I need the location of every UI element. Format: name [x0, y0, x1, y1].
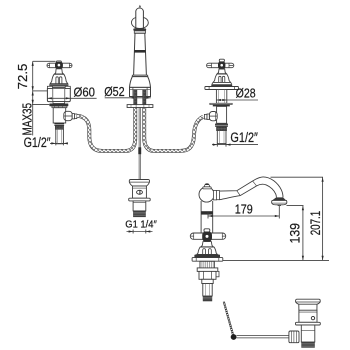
- right valve skirt (dark): [211, 84, 232, 86]
- right valve deck flange (dark): [213, 105, 230, 107]
- side view tail collar: [202, 279, 213, 283]
- deck reference line: [223, 259, 329, 261]
- right valve handle neck: [217, 69, 226, 74]
- left valve shaded bushing: [55, 126, 63, 129]
- spout front: base collar lines: [132, 75, 147, 76]
- svg-text:G1/2″: G1/2″: [230, 130, 258, 145]
- left valve body cup (diameter 60): [47, 87, 70, 101]
- drain side view: tail: [301, 325, 315, 342]
- pop-up rod connector (dark): [138, 147, 141, 154]
- drain side view: neck: [299, 304, 317, 310]
- left valve threaded tail G1/2: [56, 129, 64, 144]
- left valve lock nut (dark bands): [54, 123, 64, 124]
- drain front view: lower body: [133, 201, 146, 211]
- drain front view: threaded tail (dark): [133, 211, 146, 217]
- dimension 179: [208, 206, 279, 219]
- drain front view: upper body: [133, 186, 147, 198]
- side view handle neck: [201, 242, 213, 247]
- svg-text:Ø28: Ø28: [236, 85, 256, 100]
- svg-text:207.1: 207.1: [308, 211, 323, 236]
- side view spout ball: [199, 187, 214, 202]
- left valve waist: [53, 102, 65, 104]
- spout front: bell base: [130, 77, 151, 88]
- right valve base flange: [205, 87, 239, 90]
- dimension column left: vertical dimension line: [32, 61, 56, 135]
- left valve flange feet: [52, 106, 67, 108]
- side view washer tab: [215, 271, 219, 276]
- side view arm collar ribs: [213, 190, 216, 200]
- svg-text:G1/2″: G1/2″: [24, 135, 51, 150]
- right valve stem diameter 28: [216, 90, 226, 104]
- pop-up rod (front view): [139, 108, 140, 180]
- right valve clamp body: [217, 106, 227, 123]
- pop-up pull rod (knurled, side view): [224, 302, 234, 337]
- pop-up horizontal rod: [237, 336, 290, 338]
- svg-text:Ø52: Ø52: [104, 84, 124, 99]
- spout front: curl ellipse: [132, 17, 149, 28]
- side view base flange: [192, 258, 223, 262]
- drain side view: threads (dark): [301, 342, 315, 348]
- spout front: dark ring band: [134, 50, 145, 53]
- left valve cross handle top stub: [56, 61, 61, 64]
- drain side view: body: [299, 310, 317, 322]
- side view outlet collar (dark): [272, 197, 286, 200]
- side view arm joint line 2: [253, 181, 257, 186]
- drain front view: flange: [129, 198, 151, 201]
- braided supply hose left: [77, 108, 136, 151]
- side view handle top stub: [204, 229, 210, 232]
- left valve bell and skirt: [50, 74, 67, 83]
- left valve handle hub: [55, 62, 63, 69]
- dimension 139: [287, 206, 304, 261]
- spout front: mounting plate: [127, 105, 153, 108]
- side view arm joint line: [237, 191, 240, 196]
- side view mounting nut: [199, 271, 216, 279]
- svg-text:MAX35: MAX35: [19, 103, 34, 136]
- dimension line G1 1/4: [127, 230, 153, 234]
- side view horseshoe washer: [197, 268, 218, 272]
- right valve deck plate: [210, 103, 232, 104]
- svg-text:139: 139: [287, 223, 302, 244]
- right valve threaded tail G1/2: [217, 131, 226, 144]
- side view skirt (dark): [194, 255, 220, 258]
- right valve hose connector ribs: [207, 114, 209, 120]
- side view threaded shank below deck: [200, 261, 215, 268]
- left valve side outlet ball: [64, 111, 72, 120]
- svg-text:72.5: 72.5: [15, 64, 30, 90]
- left valve cross handle bar: [47, 63, 72, 67]
- right valve handle hub: [218, 62, 225, 70]
- drain front view: plug cap: [129, 179, 149, 186]
- pop-up lever ball joint: [231, 334, 237, 340]
- side view handle hub: [202, 232, 212, 242]
- spout front: top tube: [136, 8, 144, 29]
- arrowheads on left dimension column: [32, 62, 34, 105]
- left valve hose connector ribs: [72, 114, 74, 119]
- pop-up rod nut (ribbed): [289, 331, 299, 343]
- dimension 207.1: [271, 177, 324, 260]
- dimension diameter 52: [105, 97, 151, 99]
- side view spout column: [201, 201, 213, 234]
- side view column dark band: [201, 211, 213, 214]
- side view handle bar: [190, 233, 225, 239]
- spout front: base cylinder diameter 52: [130, 87, 151, 96]
- left valve handle neck: [54, 69, 63, 74]
- left valve G1/2 dimension line: [50, 141, 67, 145]
- svg-text:179: 179: [235, 202, 253, 216]
- svg-text:Ø60: Ø60: [74, 85, 96, 100]
- drain side view: flange: [296, 322, 321, 325]
- side view threaded tail: [203, 284, 212, 297]
- spout front: tapered body: [134, 33, 147, 75]
- drain side view: cap: [296, 299, 321, 304]
- left valve clamp body: [53, 108, 65, 123]
- left valve skirt flange (dark): [49, 84, 68, 87]
- spout front: collar (dark): [133, 28, 146, 31]
- dimension line diameter 60: [47, 97, 96, 99]
- side view spout arm tube: [220, 177, 283, 198]
- right valve lock nut (dark bands): [215, 124, 228, 125]
- drain front view: overflow hole: [137, 190, 143, 194]
- dimension diameter 28: [216, 99, 258, 101]
- side view handle bell: [197, 247, 218, 254]
- right valve shaded bushing: [217, 127, 227, 131]
- side view finial: [204, 184, 209, 187]
- left valve deck flange (dark): [49, 104, 68, 107]
- svg-text:G1 1/4″: G1 1/4″: [125, 220, 157, 231]
- right valve cross handle top stub: [219, 59, 224, 62]
- right valve cross handle bar: [207, 63, 234, 67]
- right valve G1/2 dimension line: [212, 143, 258, 147]
- side view outlet bulb: [272, 200, 287, 204]
- right valve side outlet ball: [209, 112, 217, 121]
- spout front: collar lower band: [134, 31, 145, 33]
- braided supply hose right: [144, 108, 203, 151]
- right valve bell: [213, 74, 231, 82]
- spout front: threaded shanks: [134, 90, 137, 105]
